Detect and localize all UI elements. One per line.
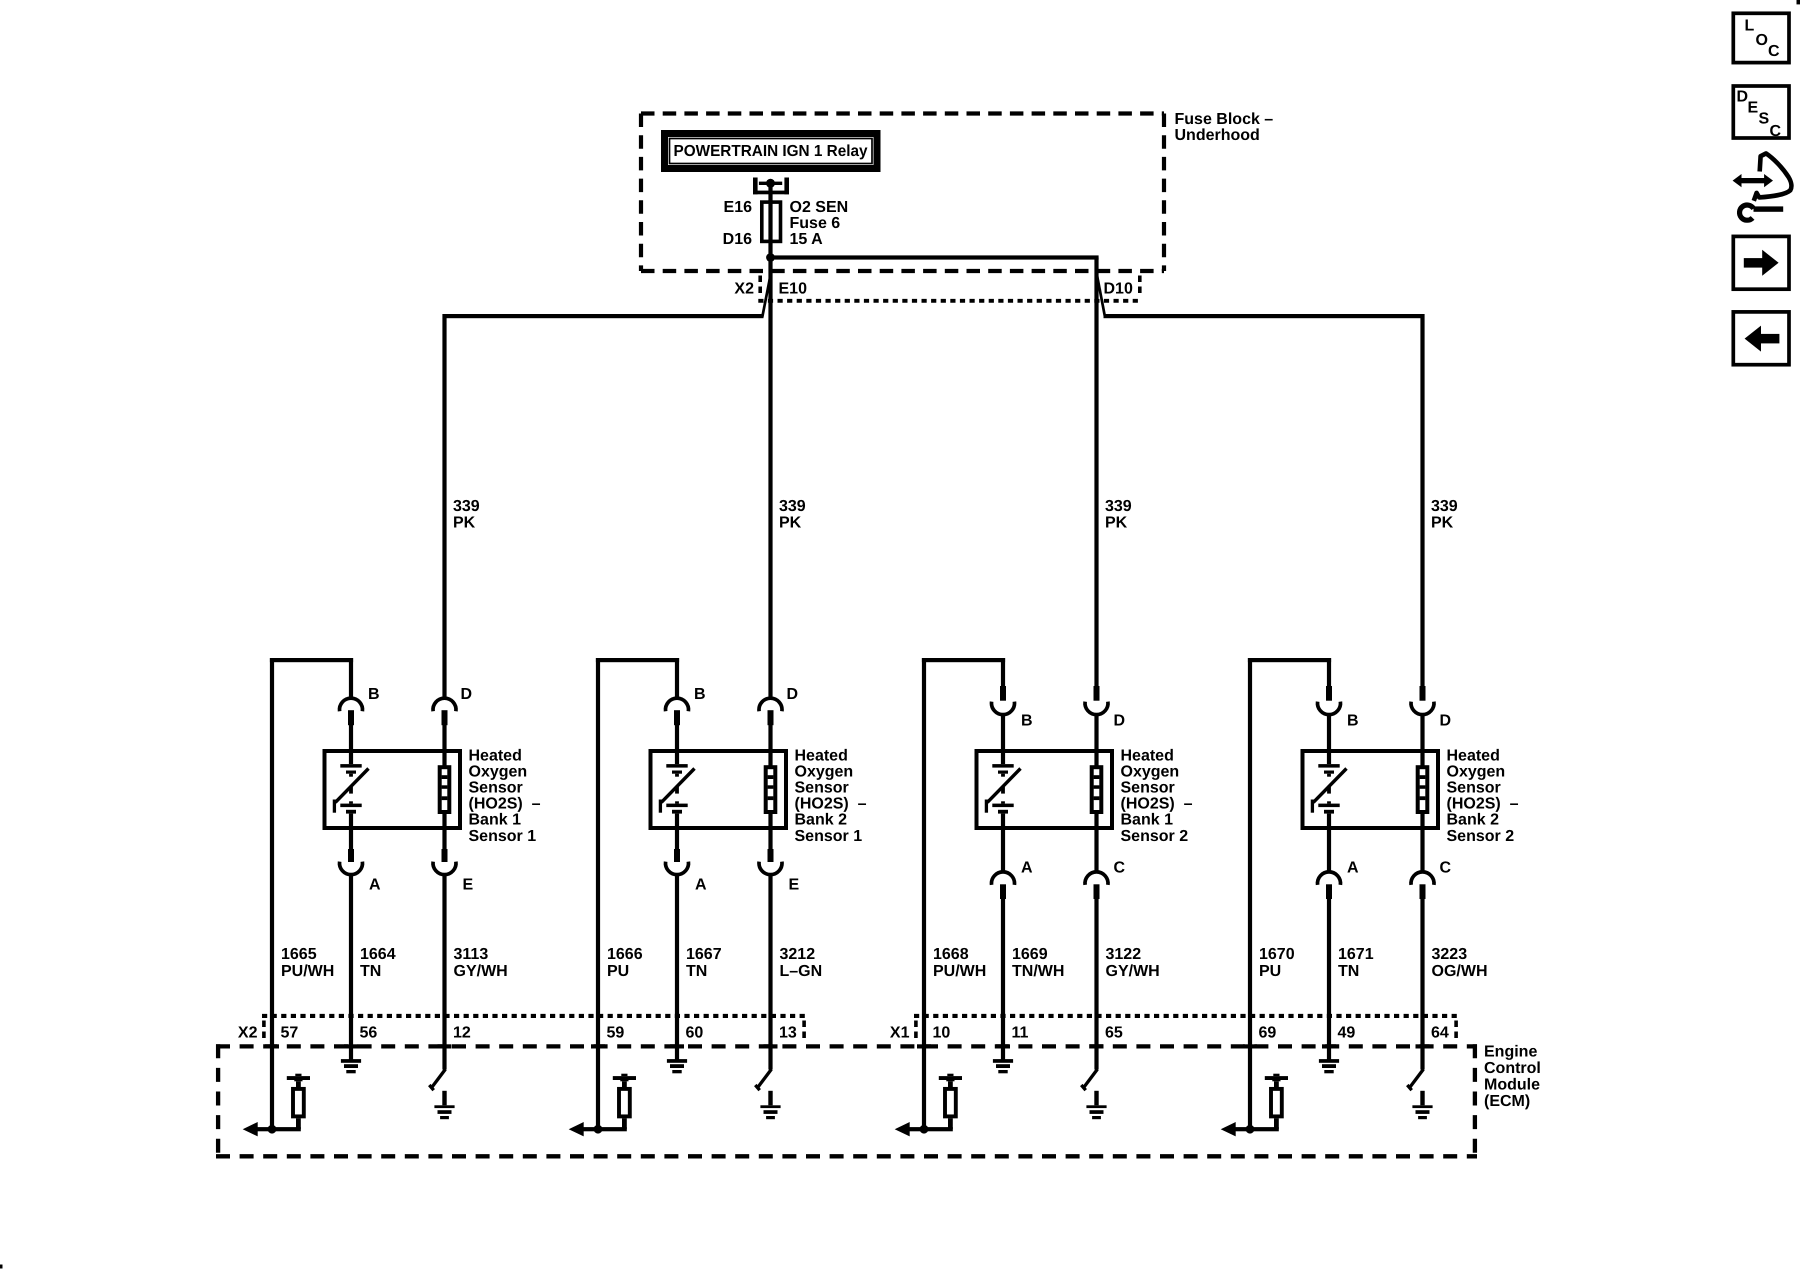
internal signal line with junction (pin 57) [258,1125,301,1134]
wire: ECM pin 65 internal [1094,1016,1098,1070]
page corner mark [1797,0,1800,4]
driver switch (pin 13) [755,1069,771,1090]
driver switch (pin 65) [1081,1069,1097,1090]
connector pin E (HO2S B1S1) [433,828,456,1016]
svg-text:Bank 1: Bank 1 [1121,812,1174,829]
pin label A [1347,859,1359,876]
svg-text:PU/WH: PU/WH [281,963,334,980]
connector pin A (HO2S B1S1) [340,828,363,1016]
svg-text:D10: D10 [1104,280,1133,297]
wire: ECM pin 10 internal [922,1016,926,1131]
svg-text:69: 69 [1259,1025,1277,1042]
svg-text:3223: 3223 [1432,946,1468,963]
internal signal line with junction (pin 59) [584,1125,627,1134]
wire: pin B drop branch B1S1 [349,658,353,700]
internal B+ supply bar (pin 69) [1265,1074,1288,1087]
ECM pin 69 [1259,1025,1277,1042]
svg-text:56: 56 [360,1025,378,1042]
label X1 (ECM) [890,1025,910,1042]
sensor element (variable cell) B1S2 [986,751,1020,828]
svg-text:Sensor 1: Sensor 1 [469,828,537,845]
wire: fuse feed horizontal to D10 [768,255,1098,259]
svg-text:GY/WH: GY/WH [1106,963,1160,980]
wire label 1668 PU/WH [933,946,986,980]
svg-text:Bank 1: Bank 1 [469,812,522,829]
switched ground (pin 13) [760,1091,780,1119]
wire: right distribution to branch 4 [1104,314,1423,318]
pin label D [787,686,799,703]
connector pin A (HO2S B2S2) [1318,828,1341,1016]
connector pin B (HO2S B1S2) [992,686,1015,751]
svg-text:PK: PK [1105,515,1128,532]
internal B+ supply bar (pin 57) [287,1074,310,1087]
connector pass-through diagonal at D10 [1096,272,1105,318]
wire: 1668 PU/WH riser branch B1S2 [922,658,1005,1016]
svg-text:PU: PU [607,963,629,980]
HO2S sensor box B1S1 [325,751,461,828]
internal pull-up resistor (pin 59) [619,1089,630,1129]
internal pull-up resistor (pin 57) [293,1089,304,1129]
svg-text:D: D [1114,712,1126,729]
svg-text:B: B [368,686,380,703]
wire label 1667 TN [686,946,722,980]
ECM pin 49 [1338,1025,1356,1042]
heater element B1S1 [440,751,450,828]
svg-text:Bank 2: Bank 2 [1447,812,1500,829]
svg-text:D16: D16 [723,231,752,248]
svg-text:65: 65 [1105,1025,1123,1042]
fuse F: O2 SEN Fuse 6 15A [760,200,782,258]
svg-text:TN/WH: TN/WH [1012,963,1064,980]
svg-text:339: 339 [779,498,806,515]
ECM pin 65 [1105,1025,1123,1042]
svg-text:PK: PK [779,515,802,532]
ECM pin 10 [933,1025,951,1042]
wire: 1670 PU riser branch B2S2 [1248,658,1331,1016]
svg-text:S: S [1759,111,1770,128]
svg-text:Engine: Engine [1484,1043,1537,1060]
svg-text:Fuse 6: Fuse 6 [790,215,841,232]
wire: pin B drop branch B2S1 [675,658,679,700]
svg-text:1667: 1667 [686,946,722,963]
svg-text:A: A [695,877,707,894]
connector pin D (HO2S B1S2) [1085,686,1108,751]
wire: 339 PK down to HO2S B1S1 pin D [442,314,446,700]
wire crossing ticks at ECM boundary [265,1044,1430,1048]
wire: ECM pin 57 internal [270,1016,274,1131]
relay K: POWERTRAIN IGN 1 Relay box [661,130,881,172]
svg-text:Oxygen: Oxygen [469,763,528,780]
pin label A [369,877,381,894]
wire: ECM pin 60 internal [675,1016,679,1060]
switched ground (pin 65) [1086,1091,1106,1119]
svg-text:3212: 3212 [780,946,816,963]
svg-text:(HO2S) –: (HO2S) – [1121,796,1193,813]
wire: ECM pin 12 internal [442,1016,446,1070]
ground (pin 60) [667,1059,687,1073]
svg-text:PU: PU [1259,963,1281,980]
ECM pin 13 [779,1025,797,1042]
HO2S label B2S1 [795,747,867,845]
internal signal line with junction (pin 10) [910,1125,953,1134]
wire label 3113 GY/WH [454,946,508,980]
junction node below fuse [766,253,775,262]
svg-text:49: 49 [1338,1025,1356,1042]
svg-text:(HO2S) –: (HO2S) – [469,796,541,813]
connector pin E (HO2S B2S1) [759,828,782,1016]
svg-text:D: D [461,686,473,703]
svg-text:C: C [1768,43,1780,60]
wire: ECM pin 13 internal [768,1016,772,1070]
wire: ECM pin 59 internal [596,1016,600,1131]
ground (pin 49) [1319,1059,1339,1073]
wire: ECM pin 49 internal [1327,1016,1331,1060]
sensor element (variable cell) B1S1 [334,751,368,828]
label X2 [734,280,754,297]
svg-text:59: 59 [607,1025,625,1042]
svg-text:L: L [1745,17,1755,34]
internal arrow to ECM logic (pin 59) [569,1122,584,1136]
wire: 1665 PU/WH riser branch B1S1 [270,658,353,1016]
internal signal line with junction (pin 69) [1236,1125,1279,1134]
ECM connector strip X2 [262,1016,806,1042]
svg-text:Oxygen: Oxygen [1121,763,1180,780]
terminal E10 [779,280,808,297]
svg-text:D: D [1440,712,1452,729]
ECM pin 59 [607,1025,625,1042]
pin label E [463,877,474,894]
svg-text:1669: 1669 [1012,946,1048,963]
fuse block label [1175,111,1274,144]
svg-text:B: B [1021,712,1033,729]
svg-text:Sensor 2: Sensor 2 [1121,828,1189,845]
pin label C [1114,859,1126,876]
pin label A [695,877,707,894]
ECM dashed outline [216,1044,1477,1157]
icon box forward arrow [1733,236,1789,289]
connector pin A (HO2S B1S2) [992,828,1015,1016]
connector pin B (HO2S B1S1) [340,698,363,751]
wire label 3223 OG/WH [1432,946,1488,980]
wire label 1669 TN/WH [1012,946,1064,980]
HO2S sensor box B2S2 [1303,751,1439,828]
wire label 1665 PU/WH [281,946,334,980]
svg-text:Sensor: Sensor [1447,780,1501,797]
svg-text:E: E [463,877,474,894]
wire label 339 PK [1431,498,1458,531]
label X2 (ECM) [238,1025,258,1042]
svg-text:X2: X2 [238,1025,258,1042]
internal pull-up resistor (pin 10) [945,1089,956,1129]
wire label 339 PK [779,498,806,531]
svg-text:10: 10 [933,1025,951,1042]
relay contact symbol [753,178,789,202]
heater element B1S2 [1092,751,1102,828]
svg-text:A: A [369,877,381,894]
svg-text:POWERTRAIN IGN 1 Relay: POWERTRAIN IGN 1 Relay [674,143,868,160]
fuse block underhood dashed outline [641,114,1164,272]
wire label 3212 L&#8211;GN [780,946,823,980]
terminal D10 [1104,280,1133,297]
svg-text:(HO2S) –: (HO2S) – [795,796,867,813]
HO2S label B2S2 [1447,747,1519,845]
svg-text:Heated: Heated [795,747,848,764]
pin label B [368,686,380,703]
wire label 339 PK [1105,498,1132,531]
ECM pin 57 [281,1025,299,1042]
svg-text:12: 12 [453,1025,471,1042]
driver switch (pin 12) [429,1069,445,1090]
wire label 339 PK [453,498,480,531]
svg-text:Oxygen: Oxygen [795,763,854,780]
svg-text:D: D [1737,88,1749,105]
svg-text:Heated: Heated [469,747,522,764]
svg-text:1671: 1671 [1338,946,1374,963]
wire: ECM pin 69 internal [1248,1016,1252,1131]
wire: pin B drop branch B2S2 [1327,658,1331,687]
connector pin C (HO2S B1S2) [1085,828,1108,1016]
pin label B [1347,712,1359,729]
svg-text:X2: X2 [734,280,754,297]
wire label 1664 TN [360,946,396,980]
ECM pin 60 [686,1025,704,1042]
svg-text:Underhood: Underhood [1175,127,1260,144]
svg-text:Sensor: Sensor [795,780,849,797]
svg-text:B: B [1347,712,1359,729]
connector pin D (HO2S B2S2) [1411,686,1434,751]
switched ground (pin 12) [434,1091,454,1119]
fuse terminal label D16 [723,231,752,248]
svg-text:(ECM): (ECM) [1484,1093,1530,1110]
svg-text:339: 339 [453,498,480,515]
svg-text:X1: X1 [890,1025,910,1042]
HO2S sensor box B2S1 [651,751,787,828]
connector pin A (HO2S B2S1) [666,828,689,1016]
svg-text:Fuse Block –: Fuse Block – [1175,111,1274,128]
wire: 339 PK down to HO2S B2S2 pin D [1420,314,1424,687]
svg-text:B: B [694,686,706,703]
page speck bottom left [0,1265,3,1269]
heater element B2S2 [1418,751,1428,828]
wire: pin B drop branch B1S2 [1001,658,1005,687]
fuse value label [790,199,849,248]
ECM label [1484,1043,1541,1110]
heater element B2S1 [766,751,776,828]
ground (pin 56) [341,1059,361,1073]
svg-text:A: A [1347,859,1359,876]
svg-text:Module: Module [1484,1077,1540,1094]
svg-text:C: C [1770,123,1782,140]
icon box DESC [1733,86,1789,140]
wire label 1670 PU [1259,946,1295,980]
connector pin B (HO2S B2S2) [1318,686,1341,751]
internal arrow to ECM logic (pin 10) [895,1122,910,1136]
svg-text:PK: PK [1431,515,1454,532]
svg-text:TN: TN [1338,963,1359,980]
wire label 1666 PU [607,946,643,980]
switched ground (pin 64) [1412,1091,1432,1119]
internal arrow to ECM logic (pin 57) [243,1122,258,1136]
internal B+ supply bar (pin 10) [939,1074,962,1087]
connector pin D (HO2S B1S1) [433,698,456,751]
pin label E [789,877,800,894]
wire label 1671 TN [1338,946,1374,980]
svg-text:1665: 1665 [281,946,317,963]
svg-text:64: 64 [1431,1025,1449,1042]
internal arrow to ECM logic (pin 69) [1221,1122,1236,1136]
driver switch (pin 64) [1407,1069,1423,1090]
svg-text:TN: TN [360,963,381,980]
svg-text:GY/WH: GY/WH [454,963,508,980]
connector strip X2 (fuse block) [758,276,1141,301]
svg-text:E16: E16 [724,199,753,216]
svg-text:TN: TN [686,963,707,980]
svg-text:Sensor: Sensor [1121,780,1175,797]
pin label B [1021,712,1033,729]
connector pin D (HO2S B2S1) [759,698,782,751]
ECM pin 64 [1431,1025,1449,1042]
svg-text:(HO2S) –: (HO2S) – [1447,796,1519,813]
svg-text:O2 SEN: O2 SEN [790,199,849,216]
svg-text:Sensor 2: Sensor 2 [1447,828,1515,845]
icon box back arrow [1733,312,1789,365]
internal pull-up resistor (pin 69) [1271,1089,1282,1129]
svg-text:A: A [1021,859,1033,876]
pin label A [1021,859,1033,876]
svg-text:15 A: 15 A [790,231,824,248]
wire: 339 PK down to HO2S B2S1 pin D [768,258,772,700]
wire: ECM pin 64 internal [1420,1016,1424,1070]
pin label D [461,686,473,703]
svg-text:11: 11 [1012,1025,1029,1042]
icon box LOC [1733,13,1789,62]
wire: 1666 PU riser branch B2S1 [596,658,679,1016]
svg-text:D: D [787,686,799,703]
svg-text:1670: 1670 [1259,946,1295,963]
svg-text:PK: PK [453,515,476,532]
ECM pin 56 [360,1025,378,1042]
svg-text:1666: 1666 [607,946,643,963]
svg-text:3113: 3113 [454,946,489,963]
wire: ECM pin 11 internal [1001,1016,1005,1060]
wire label 3122 GY/WH [1106,946,1160,980]
svg-text:E: E [789,877,800,894]
wire: 339 PK down to HO2S B1S2 pin D [1094,258,1098,687]
svg-text:E: E [1748,99,1759,116]
svg-text:Sensor 1: Sensor 1 [795,828,863,845]
svg-text:57: 57 [281,1025,299,1042]
svg-text:1668: 1668 [933,946,969,963]
svg-text:13: 13 [779,1025,797,1042]
connector pass-through diagonal at E10 [762,272,771,318]
connector pin C (HO2S B2S2) [1411,828,1434,1016]
ground (pin 11) [993,1059,1013,1073]
svg-text:PU/WH: PU/WH [933,963,986,980]
sensor element (variable cell) B2S1 [660,751,694,828]
ECM pin 11 [1012,1025,1029,1042]
fuse terminal label E16 [724,199,753,216]
svg-text:OG/WH: OG/WH [1432,963,1488,980]
sensor element (variable cell) B2S2 [1312,751,1346,828]
ECM pin 12 [453,1025,471,1042]
HO2S sensor box B1S2 [977,751,1113,828]
svg-text:C: C [1114,859,1126,876]
wire: left distribution to branch 1 [445,314,764,318]
svg-text:L–GN: L–GN [780,963,823,980]
svg-text:O: O [1756,32,1768,49]
connector pin B (HO2S B2S1) [666,698,689,751]
wire: ECM pin 56 internal [349,1016,353,1060]
svg-text:Oxygen: Oxygen [1447,763,1506,780]
pin label D [1114,712,1126,729]
icon wiring route (arrows and wrench) [1733,153,1792,220]
svg-text:Heated: Heated [1447,747,1500,764]
svg-text:Sensor: Sensor [469,780,523,797]
svg-text:60: 60 [686,1025,704,1042]
svg-text:Control: Control [1484,1060,1541,1077]
svg-text:339: 339 [1431,498,1458,515]
svg-text:1664: 1664 [360,946,396,963]
svg-text:Heated: Heated [1121,747,1174,764]
HO2S label B1S1 [469,747,541,845]
svg-text:E10: E10 [779,280,808,297]
svg-text:339: 339 [1105,498,1132,515]
ECM connector strip X1 [914,1016,1458,1042]
pin label C [1440,859,1452,876]
internal B+ supply bar (pin 59) [613,1074,636,1087]
pin label B [694,686,706,703]
pin label D [1440,712,1452,729]
svg-text:3122: 3122 [1106,946,1142,963]
HO2S label B1S2 [1121,747,1193,845]
svg-text:C: C [1440,859,1452,876]
svg-text:Bank 2: Bank 2 [795,812,848,829]
